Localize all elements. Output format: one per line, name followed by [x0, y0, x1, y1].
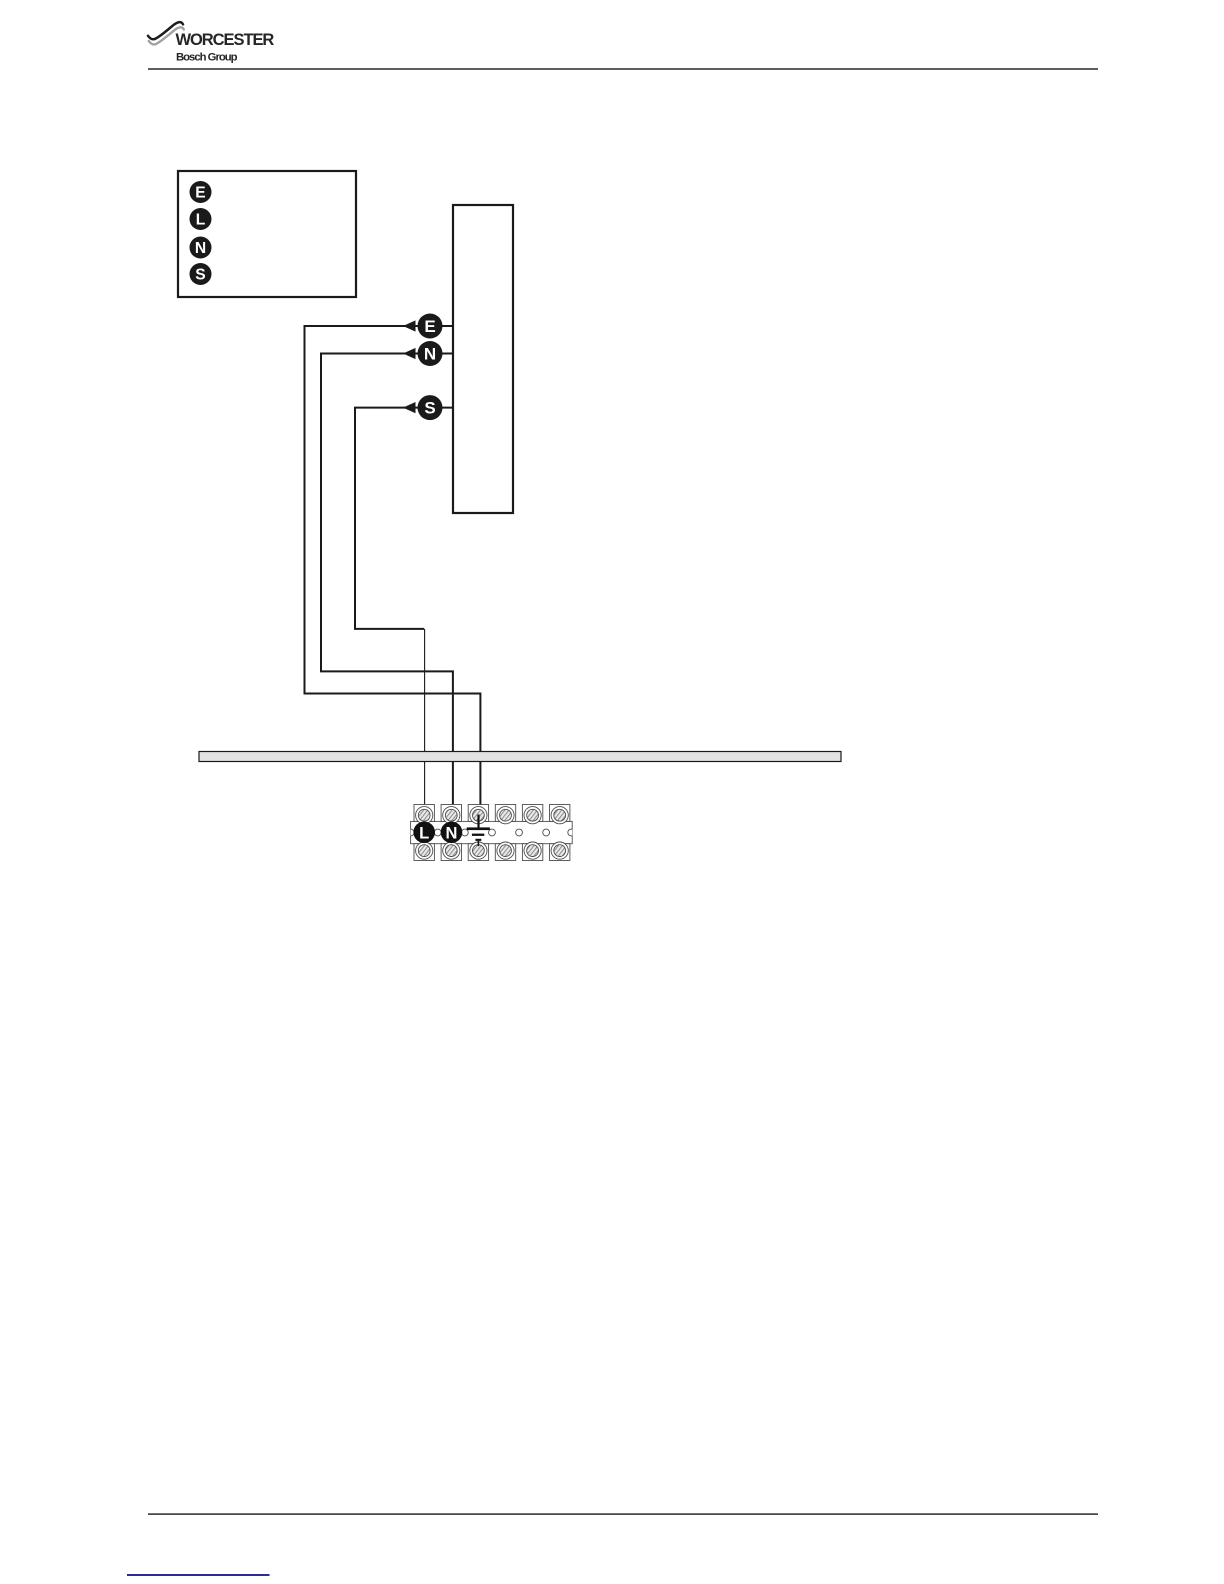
- svg-text:E: E: [424, 317, 435, 336]
- terminal 5 top screw: [524, 807, 541, 824]
- svg-text:N: N: [195, 240, 206, 257]
- legend terminal N: [190, 237, 212, 259]
- footer link line: [127, 1574, 270, 1576]
- terminal 6 bottom screw: [551, 842, 568, 859]
- terminal strip middle band: [411, 821, 573, 843]
- header rule: [148, 68, 1098, 69]
- terminal 4 bottom box: [495, 844, 515, 861]
- terminal 5 bottom box: [522, 844, 542, 861]
- earth symbol top bar: [467, 827, 490, 830]
- terminal N top screw: [443, 807, 460, 824]
- wire E (earth run from boiler to junction): [404, 325, 454, 327]
- svg-text:S: S: [195, 267, 205, 284]
- connector E: [418, 314, 443, 339]
- terminal 4 bottom screw: [497, 842, 514, 859]
- legend terminal S: [190, 263, 212, 285]
- terminal 4 top box: [495, 805, 515, 822]
- terminal N bottom box: [441, 844, 461, 861]
- terminal strip cable holes: [407, 829, 574, 836]
- terminal N bottom screw: [443, 842, 460, 859]
- earth symbol bottom bar: [475, 839, 481, 841]
- wall / casing grey bar: [199, 752, 841, 762]
- earth symbol lower stem: [478, 841, 480, 846]
- terminal earth bottom screw: [470, 842, 487, 859]
- svg-text:N: N: [424, 345, 436, 364]
- arrow S: [403, 402, 416, 413]
- terminal 6 bottom box: [550, 844, 570, 861]
- terminal L bottom box: [414, 844, 434, 861]
- earth symbol middle bar: [472, 834, 484, 836]
- footer rule: [148, 1513, 1098, 1514]
- terminal L top screw: [416, 807, 433, 824]
- terminal 5 top box: [522, 805, 542, 822]
- wire N (neutral run from boiler to junction): [404, 353, 454, 355]
- svg-text:L: L: [196, 212, 206, 229]
- Worcester wave logo swoosh (grey stroke): [149, 27, 184, 44]
- terminal N top box: [441, 805, 461, 822]
- legend terminal E: [190, 181, 212, 203]
- terminal L bottom screw: [416, 842, 433, 859]
- connector S: [418, 395, 443, 420]
- svg-text:N: N: [446, 824, 458, 842]
- legend terminal L: [190, 208, 212, 230]
- mains terminal label L: [413, 822, 435, 844]
- earth symbol stem: [477, 815, 479, 828]
- svg-text:L: L: [419, 824, 429, 842]
- terminal 5 bottom screw: [524, 842, 541, 859]
- terminal earth top screw: [470, 807, 487, 824]
- legend box (external controls): [178, 171, 356, 297]
- arrow E: [403, 320, 416, 331]
- svg-text:E: E: [195, 185, 205, 202]
- terminal L top box: [414, 805, 434, 822]
- svg-text:Bosch Group: Bosch Group: [176, 51, 238, 63]
- svg-text:WORCESTER: WORCESTER: [176, 31, 275, 49]
- Worcester wave logo swoosh (black stroke): [148, 22, 183, 39]
- arrow N: [403, 348, 416, 359]
- svg-text:S: S: [424, 399, 435, 418]
- connector N: [418, 341, 443, 366]
- terminal earth top box: [468, 805, 488, 822]
- terminal 6 top box: [550, 805, 570, 822]
- terminal 6 top screw: [551, 807, 568, 824]
- terminal earth bottom box: [468, 844, 488, 861]
- wire S (switched live run from boiler to junction): [404, 407, 454, 409]
- mains terminal label N: [441, 822, 463, 844]
- boiler terminal block box: [453, 205, 513, 513]
- terminal 4 top screw: [497, 807, 514, 824]
